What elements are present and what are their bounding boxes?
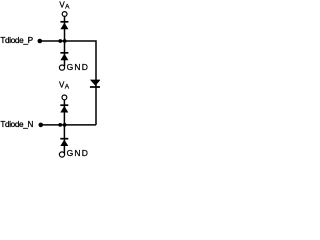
wire Tdiode_P net: port to stack to right branch, corner down: [40, 41, 96, 125]
ground terminal circle (top): [59, 65, 64, 70]
diode D2 triangle: [60, 54, 68, 61]
diode D2 (top stack, GND to node): cathode bar: [60, 52, 68, 54]
node Tdiode_N port pin dot: [39, 123, 44, 128]
wire top stack vertical: [64, 16, 66, 66]
junction dot left (Tdiode_N net): [58, 123, 62, 127]
diode D1 (top stack, node to VA): cathode bar: [60, 21, 68, 23]
diode D3 triangle: [60, 106, 68, 113]
svg-text:A: A: [65, 83, 70, 90]
diode D1 triangle: [60, 23, 68, 30]
svg-text:Tdiode_N: Tdiode_N: [0, 120, 33, 129]
diode D4 triangle: [60, 140, 68, 147]
svg-text:A: A: [65, 4, 70, 11]
diode D3 (bottom stack, node to VA): cathode bar: [60, 104, 68, 106]
svg-text:GND: GND: [67, 148, 90, 158]
node Tdiode_P port pin dot: [38, 39, 43, 44]
svg-text:Tdiode_P: Tdiode_P: [0, 36, 32, 45]
ground terminal circle (bottom): [59, 152, 64, 157]
junction dot right (Tdiode_N net): [63, 123, 67, 127]
diode D5 cathode bar: [90, 86, 101, 88]
junction dot left (Tdiode_P net): [58, 39, 62, 43]
wire bottom stack vertical: [63, 100, 65, 154]
svg-text:GND: GND: [67, 62, 90, 72]
diode D4 (bottom stack, GND to node): cathode bar: [60, 138, 68, 140]
power VA terminal circle (top): [62, 12, 67, 17]
diode D5 (right branch, P node to N node): triangle: [90, 80, 101, 86]
junction dot right (Tdiode_P net): [63, 39, 67, 43]
wire Tdiode_N net: port to stack to right corner: [41, 124, 96, 126]
power VA terminal circle (bottom): [62, 95, 67, 100]
